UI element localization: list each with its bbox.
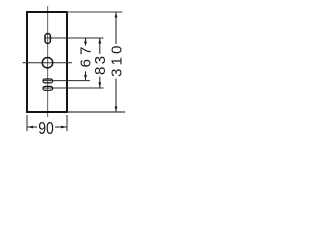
- dimension line 90: [28, 126, 37, 128]
- extension line below right corner: [66, 115, 68, 131]
- slot hole top: [45, 34, 50, 44]
- extension line below left corner: [26, 115, 28, 131]
- svg-text:90: 90: [38, 120, 54, 139]
- svg-text:0: 0: [108, 46, 125, 54]
- centerline: [47, 6, 49, 117]
- extension line circle center: [23, 62, 73, 64]
- dimension line 83: [99, 38, 101, 54]
- extension line slot3 center: [43, 87, 104, 89]
- extension line top edge: [67, 11, 122, 13]
- slot hole middle: [43, 79, 53, 83]
- extension line slot2 center: [43, 80, 90, 82]
- svg-text:8: 8: [92, 67, 109, 75]
- extension line bottom edge: [67, 111, 125, 113]
- plate outline: [27, 12, 67, 112]
- svg-text:3: 3: [92, 56, 109, 64]
- extension line slot1 center: [45, 37, 104, 39]
- svg-text:3: 3: [108, 69, 125, 77]
- svg-text:1: 1: [108, 57, 125, 65]
- dimension line 310: [115, 12, 117, 44]
- circle hole: [42, 58, 52, 68]
- slot hole lower: [43, 86, 53, 90]
- dimension line 67: [85, 38, 87, 46]
- svg-text:7: 7: [77, 47, 94, 55]
